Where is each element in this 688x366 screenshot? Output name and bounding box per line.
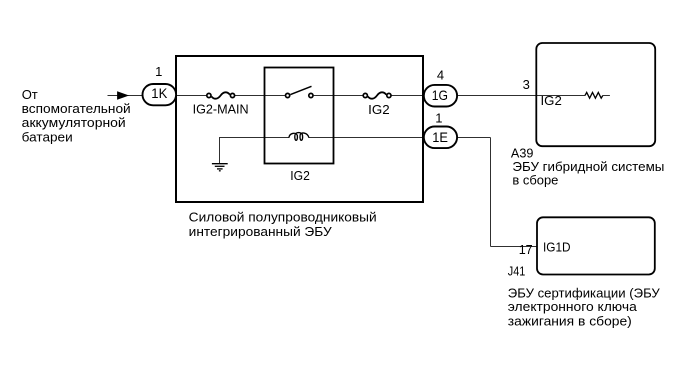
svg-text:3: 3	[523, 77, 530, 92]
svg-text:J41: J41	[508, 264, 526, 279]
svg-text:IG2: IG2	[368, 102, 390, 117]
svg-text:вспомогательной: вспомогательной	[22, 101, 131, 116]
svg-text:1: 1	[155, 64, 162, 79]
svg-text:1G: 1G	[432, 87, 448, 103]
svg-text:аккумуляторной: аккумуляторной	[22, 115, 126, 130]
svg-text:От: От	[22, 87, 38, 102]
svg-text:интегрированный ЭБУ: интегрированный ЭБУ	[189, 224, 333, 239]
svg-text:зажигания в сборе): зажигания в сборе)	[508, 313, 632, 328]
svg-text:IG1D: IG1D	[543, 239, 571, 254]
svg-text:IG2: IG2	[290, 168, 310, 183]
svg-text:17: 17	[519, 242, 533, 257]
svg-text:1E: 1E	[432, 129, 448, 145]
svg-text:1: 1	[435, 110, 442, 125]
svg-text:1K: 1K	[151, 85, 168, 101]
svg-text:электронного ключа: электронного ключа	[508, 299, 638, 314]
svg-text:IG2-MAIN: IG2-MAIN	[193, 102, 249, 117]
svg-text:4: 4	[437, 67, 444, 82]
svg-text:батареи: батареи	[22, 129, 73, 144]
svg-text:Силовой полупроводниковый: Силовой полупроводниковый	[189, 210, 377, 225]
svg-text:в сборе: в сборе	[512, 173, 558, 188]
svg-text:IG2: IG2	[541, 93, 562, 108]
